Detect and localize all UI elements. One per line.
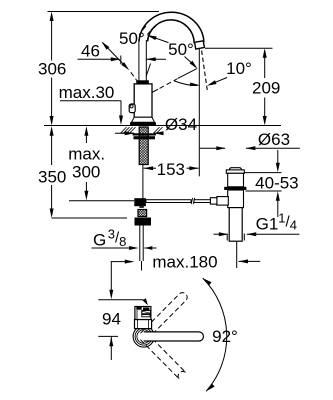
svg-text:306: 306	[38, 60, 66, 79]
svg-text:max.180: max.180	[152, 253, 217, 272]
handle plan	[135, 307, 151, 320]
counter hatch left	[121, 132, 134, 134]
svg-text:Ø34: Ø34	[165, 115, 197, 134]
base circles plan	[133, 326, 154, 347]
pop-up rod horizontal	[69, 200, 134, 202]
drain o-ring	[224, 187, 246, 190]
pop-up rod vertical	[142, 165, 144, 200]
handle tilt dashes top	[142, 26, 146, 30]
svg-text:40-53: 40-53	[255, 173, 298, 192]
spout swivel dashed up	[140, 293, 187, 340]
flexible hoses	[139, 226, 141, 262]
outlet plumb line	[198, 49, 200, 177]
handle tilt dashed line	[131, 72, 140, 84]
spout arc	[139, 12, 204, 42]
spout riser tube	[138, 39, 140, 81]
dimension 40-53	[245, 172, 282, 174]
svg-text:10°: 10°	[226, 59, 252, 78]
clevis fitting	[134, 198, 146, 206]
G3/8 adapter	[138, 210, 147, 217]
92deg arc	[203, 278, 227, 391]
svg-text:209: 209	[252, 79, 280, 98]
svg-text:max.30: max.30	[59, 83, 115, 102]
svg-text:50°: 50°	[168, 40, 194, 59]
dimension dia34	[115, 132, 134, 134]
svg-text:350: 350	[38, 168, 66, 187]
svg-text:153: 153	[157, 160, 185, 179]
drain side port	[217, 197, 229, 206]
aerator	[195, 41, 205, 49]
drain centerline	[236, 242, 238, 269]
svg-text:max.: max.	[68, 145, 105, 164]
drain body lower	[228, 190, 244, 208]
dimension 94	[110, 262, 112, 296]
short tilt line	[146, 64, 150, 77]
drain flange	[229, 168, 241, 170]
counter line	[44, 125, 281, 127]
svg-text:92°: 92°	[212, 327, 238, 346]
svg-text:300: 300	[72, 163, 100, 182]
dimension dia63	[200, 147, 225, 149]
body plan	[135, 320, 152, 329]
dimension 153	[144, 166, 154, 170]
drain body upper	[228, 173, 244, 187]
faucet body	[136, 80, 149, 84]
spout swivel dashed down	[140, 333, 186, 379]
washer and nut	[133, 133, 156, 135]
svg-text:Ø63: Ø63	[258, 130, 290, 149]
spout plan	[144, 332, 204, 341]
dimension 350	[51, 129, 53, 165]
outlet reference line	[205, 47, 273, 49]
svg-text:46: 46	[81, 42, 100, 61]
stream axis dashed	[202, 51, 208, 93]
handle knob	[129, 104, 135, 113]
drain tailpipe	[229, 208, 242, 242]
top reference line	[48, 11, 160, 13]
threaded shank	[139, 127, 148, 165]
counter hatch right	[154, 132, 162, 134]
dimension 209	[264, 51, 266, 78]
dimension 306	[51, 14, 53, 61]
diagonal dashed line	[151, 89, 158, 93]
dimension max.300	[85, 129, 87, 143]
svg-text:94: 94	[102, 310, 121, 329]
dimension max.180	[111, 261, 132, 263]
